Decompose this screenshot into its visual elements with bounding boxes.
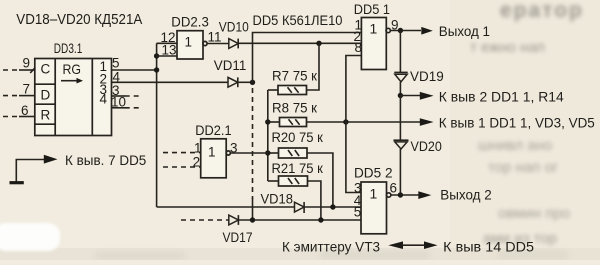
resistor R7 bbox=[268, 43, 319, 94]
svg-text:1: 1 bbox=[208, 144, 216, 159]
pin 12 wire DD2.3 bbox=[157, 30, 177, 45]
diode VD19 (cathode up) bbox=[394, 68, 444, 84]
DD3.1 output pad labels 5,4,3,10 bbox=[111, 55, 126, 109]
pin 4 wire DD5.2 (from VD18) bbox=[305, 193, 362, 210]
svg-text:DD3.1: DD3.1 bbox=[54, 41, 83, 56]
wire DD3.1 pin4 output to VD11 bbox=[112, 81, 229, 83]
svg-text:R8 75 к: R8 75 к bbox=[272, 101, 317, 116]
resistor R20 bbox=[268, 130, 333, 207]
diode VD20 (cathode up) bbox=[394, 138, 442, 154]
svg-text:1: 1 bbox=[370, 186, 378, 202]
wire R8 output to К выв 1 node bbox=[307, 119, 421, 124]
svg-text:К эмиттеру VT3: К эмиттеру VT3 bbox=[282, 238, 380, 254]
svg-text:шнивл ано: шнивл ано bbox=[478, 137, 552, 154]
svg-text:4: 4 bbox=[100, 92, 108, 107]
pin 8 wire DD5.1 (down to DD5.2 pin 3) bbox=[346, 40, 362, 193]
pin 7 wire (D input) bbox=[3, 82, 35, 97]
svg-text:DD5 2: DD5 2 bbox=[354, 166, 393, 181]
DD3.1 output pin numbers 1,2,3,4 bbox=[100, 59, 108, 107]
ground symbol with arrow К выв 7 DD5 bbox=[10, 152, 147, 183]
svg-text:5: 5 bbox=[112, 55, 120, 70]
pin 11 output wire DD2.3 bbox=[207, 29, 229, 44]
svg-text:VD17: VD17 bbox=[223, 229, 253, 245]
wire DD3.1 pin3 dashed stub bbox=[112, 95, 142, 97]
wire VD19 to К выв 2 node bbox=[398, 82, 403, 98]
node К выв 2 DD1 1, R14 bbox=[400, 90, 564, 105]
gate DD2.3 bbox=[177, 31, 207, 59]
wire VD10 to DD5.1 pin2 bbox=[238, 41, 361, 46]
svg-text:5: 5 bbox=[354, 204, 362, 219]
wire bus from DD3.1 pin5 (vertical) bbox=[154, 43, 159, 207]
wire VD11 to node A (junction with vertical riser) bbox=[238, 80, 255, 85]
diode VD18 bbox=[261, 191, 305, 214]
svg-text:13: 13 bbox=[162, 43, 177, 58]
svg-text:1: 1 bbox=[185, 35, 193, 50]
register DD3.1 bbox=[35, 59, 112, 136]
svg-text:C: C bbox=[41, 62, 51, 77]
pin 6 output wire DD5.2 bbox=[390, 181, 419, 198]
label DD3.1 bbox=[54, 41, 83, 56]
svg-text:Выход 2: Выход 2 bbox=[440, 186, 492, 202]
svg-text:К выв 1 DD1 1, VD3, VD5: К выв 1 DD1 1, VD3, VD5 bbox=[439, 116, 595, 131]
pin 13 wire DD2.3 bbox=[157, 43, 177, 58]
pin 6 wire (R input) bbox=[3, 103, 35, 118]
svg-text:Выход 1: Выход 1 bbox=[439, 23, 490, 39]
svg-text:2: 2 bbox=[193, 155, 201, 170]
svg-text:6: 6 bbox=[21, 103, 29, 118]
node К эмиттеру VT3 / К выв 14 DD5 (double arrow) bbox=[282, 238, 534, 254]
svg-text:DD2.1: DD2.1 bbox=[195, 123, 231, 138]
svg-text:RG: RG bbox=[63, 61, 82, 77]
wire bottom run to VD18/DD5.2 pin4 bbox=[157, 206, 295, 208]
svg-text:VD10: VD10 bbox=[219, 18, 249, 34]
label DD5.1 bbox=[354, 2, 390, 17]
pin 9 output wire DD5.1 bbox=[390, 18, 421, 34]
title VD18-VD20 КД521А bbox=[16, 11, 142, 28]
label DD5.2 bbox=[354, 166, 393, 181]
svg-text:VD11: VD11 bbox=[214, 57, 247, 73]
wire DD3.1 pin5 output bbox=[112, 69, 157, 71]
wire К выв 2 node down to VD20 (crosses R8 wire) bbox=[399, 96, 401, 140]
svg-text:D: D bbox=[41, 88, 51, 103]
svg-text:9: 9 bbox=[23, 55, 31, 70]
svg-text:1: 1 bbox=[370, 21, 378, 37]
diode VD11 bbox=[214, 57, 247, 87]
pin 1 wire DD2.1 (dashed) bbox=[163, 140, 202, 155]
svg-text:3: 3 bbox=[230, 140, 238, 155]
pin 2 wire DD2.1 (dashed) bbox=[163, 155, 201, 170]
pin 5 wire DD5.2 (from VD17) bbox=[239, 204, 362, 222]
resistor R21 bbox=[268, 161, 323, 220]
pin 9 wire (C input) bbox=[3, 55, 35, 73]
node Выход 1 bbox=[421, 23, 490, 39]
diode VD10 bbox=[219, 18, 249, 48]
svg-text:8: 8 bbox=[355, 40, 363, 55]
svg-text:VD19: VD19 bbox=[410, 68, 444, 84]
svg-text:7: 7 bbox=[23, 82, 31, 97]
svg-text:6: 6 bbox=[390, 181, 398, 196]
diode VD17 (on dashed line) bbox=[181, 215, 253, 245]
svg-text:VD18–VD20 КД521А: VD18–VD20 КД521А bbox=[16, 11, 142, 28]
wire Выход1 node down to VD19 bbox=[399, 31, 401, 73]
gate DD2.1 bbox=[201, 139, 231, 178]
wire DD3.1 pin10 dashed stub bbox=[112, 107, 142, 109]
pin 2 label DD5.1 bbox=[354, 29, 362, 44]
pin 1 label DD5.1 bbox=[355, 18, 363, 33]
ic DD5.2 (NOR gate) bbox=[361, 182, 391, 234]
pin 3 output wire DD2.1 to resistor bus bbox=[230, 140, 268, 155]
svg-text:1: 1 bbox=[194, 140, 202, 155]
pin 3 label DD5.2 bbox=[354, 181, 362, 196]
svg-text:DD2.3: DD2.3 bbox=[171, 14, 209, 29]
resistor R8 bbox=[268, 101, 317, 127]
svg-text:R7 75 к: R7 75 к bbox=[272, 69, 317, 84]
svg-text:тор нап ог: тор нап ог bbox=[488, 159, 559, 176]
svg-text:К выв 2 DD1 1, R14: К выв 2 DD1 1, R14 bbox=[439, 90, 564, 105]
svg-text:т ежно нап: т ежно нап bbox=[470, 39, 545, 56]
svg-text:VD20: VD20 bbox=[411, 138, 442, 154]
wire resistor left bus bbox=[265, 90, 270, 181]
svg-text:VD18: VD18 bbox=[261, 191, 294, 207]
label DD2.1 bbox=[195, 123, 231, 138]
svg-text:DD5 К561ЛЕ10: DD5 К561ЛЕ10 bbox=[253, 12, 343, 28]
svg-text:ератор: ератор bbox=[500, 0, 584, 22]
svg-text:овмин про: овмин про bbox=[498, 205, 570, 222]
svg-text:R: R bbox=[41, 108, 51, 123]
svg-text:К выв 14 DD5: К выв 14 DD5 bbox=[443, 238, 534, 254]
svg-text:R20 75 к: R20 75 к bbox=[272, 130, 323, 145]
svg-text:R21 75 к: R21 75 к bbox=[272, 161, 323, 176]
svg-text:К выв. 7 DD5: К выв. 7 DD5 bbox=[65, 152, 146, 168]
ic DD5.1 (NOR gate) bbox=[361, 18, 390, 70]
node К выв 1 DD1 1, VD3, VD5 (end of R8 wire) bbox=[420, 116, 595, 131]
node Выход 2 bbox=[418, 186, 492, 202]
wire VD20 down to Выход 2 node bbox=[399, 149, 401, 195]
label DD5 К561ЛЕ10 bbox=[253, 12, 343, 28]
svg-text:DD5 1: DD5 1 bbox=[354, 2, 390, 17]
wire riser x=252.5: up to DD5.1 pin1, dashed down to VD17 line bbox=[253, 33, 362, 221]
label DD2.3 bbox=[171, 14, 209, 29]
svg-text:9: 9 bbox=[391, 18, 399, 33]
